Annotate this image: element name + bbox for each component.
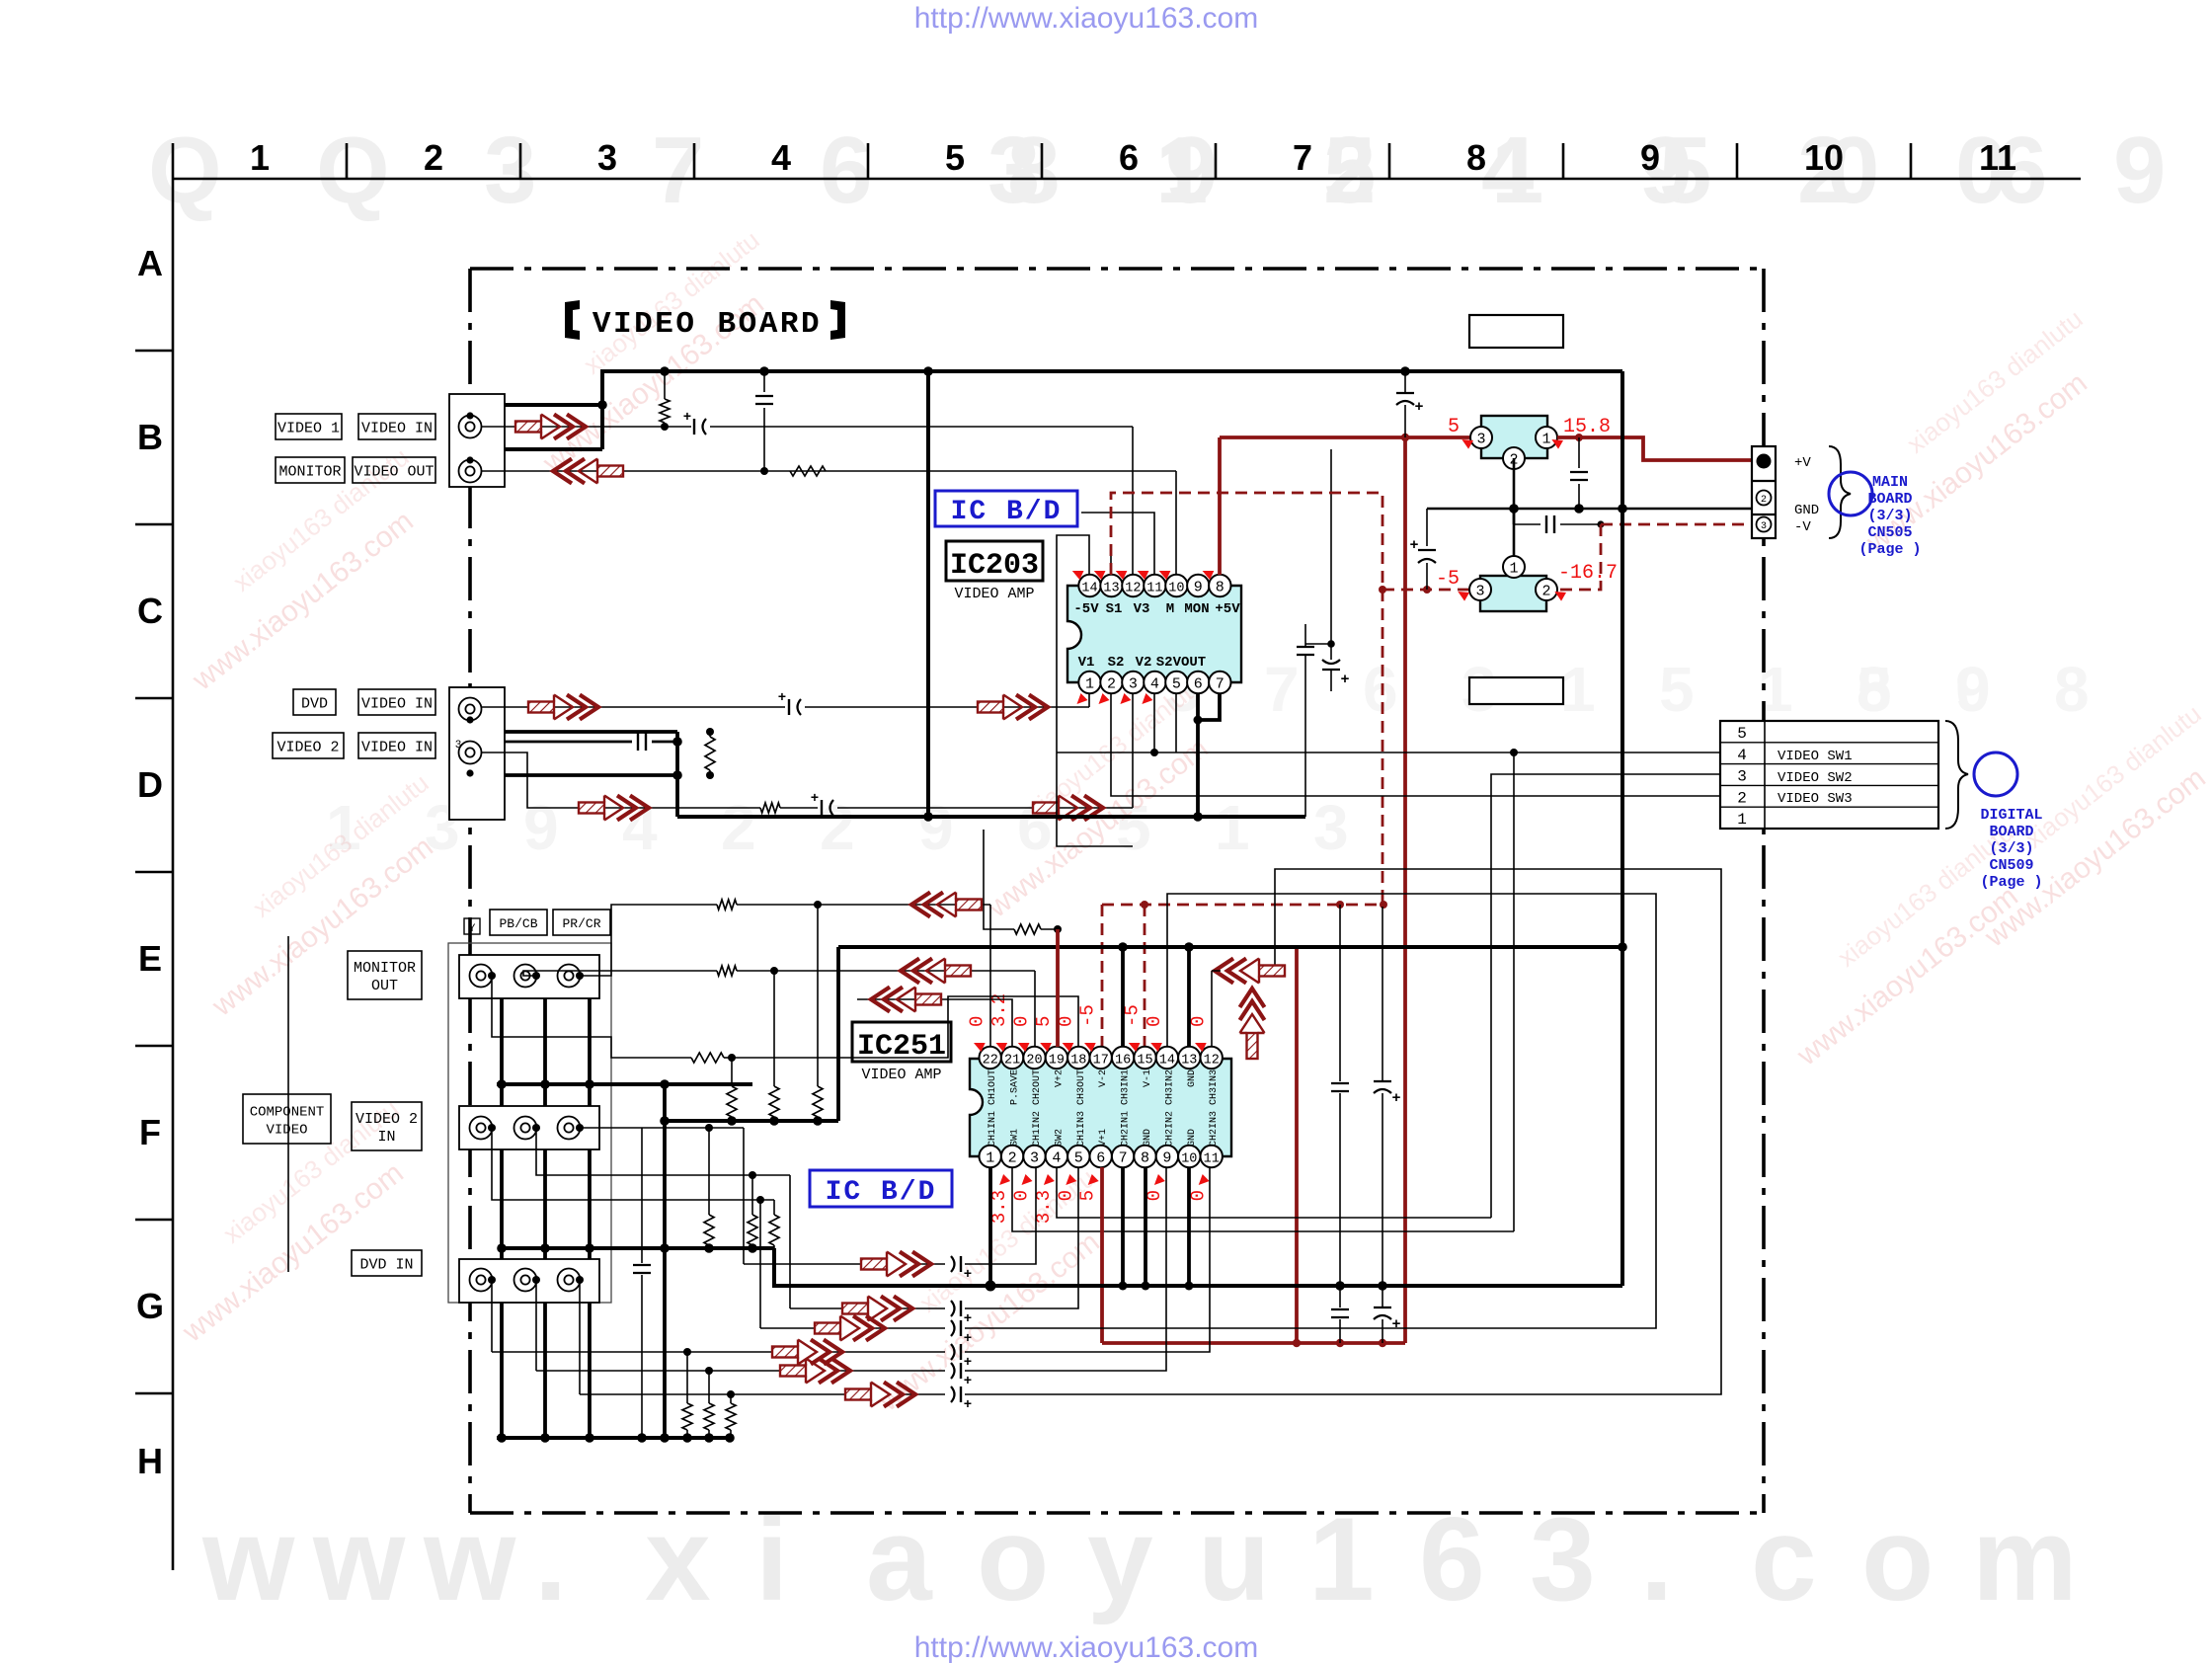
- border ruler top line: [173, 178, 2081, 181]
- IC251 pin18 wire: [732, 996, 1078, 1058]
- svg-text:14: 14: [1081, 582, 1097, 596]
- svg-text:+: +: [964, 1267, 972, 1283]
- wire sw1 vertical: [1513, 752, 1515, 1231]
- svg-text:C: C: [137, 591, 163, 631]
- dashed -5V net top: [1111, 493, 1382, 907]
- svg-text:4: 4: [1481, 118, 1534, 223]
- wire video2 jack gnd: [470, 773, 677, 775]
- svg-text:Q: Q: [148, 118, 222, 223]
- wire IC203 pin14 loop: [1057, 535, 1133, 846]
- svg-text:BOARD: BOARD: [1867, 491, 1912, 508]
- svg-text:w: w: [201, 1493, 295, 1625]
- IC251 pins bottom 1-11: [980, 1146, 1001, 1167]
- svg-text:+: +: [1414, 399, 1423, 416]
- IC251 pins top 22-12: [980, 1047, 1001, 1069]
- svg-text:SW1: SW1: [1010, 1129, 1021, 1147]
- input row 6 wire: [580, 1393, 845, 1395]
- wire video sw3 row2: [1111, 693, 1720, 796]
- svg-text:(3/3): (3/3): [1989, 840, 2033, 857]
- cap input row 3: [951, 1320, 955, 1336]
- cap on +V rail top: [1404, 371, 1406, 393]
- svg-text:CH1IN3: CH1IN3: [1076, 1111, 1087, 1147]
- svg-text:Y: Y: [469, 923, 476, 935]
- svg-text:+: +: [964, 1331, 972, 1347]
- digital board text: [1980, 807, 2042, 891]
- svg-text:Q: Q: [316, 118, 390, 223]
- series cap dvd gnd branch: [491, 741, 632, 744]
- IC251 pin19 supply stub (red): [1056, 929, 1060, 1047]
- svg-text:IC B/D: IC B/D: [826, 1177, 937, 1208]
- svg-text:7: 7: [1293, 137, 1312, 178]
- svg-text:7: 7: [1264, 654, 1300, 725]
- IC B/D label bottom: [810, 1170, 952, 1207]
- arrow input row 3: [815, 1316, 885, 1341]
- svg-text:G: G: [136, 1286, 164, 1326]
- svg-text:VIDEO SW1: VIDEO SW1: [1777, 749, 1853, 764]
- label DVD IN: [352, 1250, 422, 1276]
- component video outer box: [448, 943, 611, 1303]
- svg-text:VIDEO OUT: VIDEO OUT: [354, 464, 434, 481]
- svg-text:GND: GND: [1187, 1129, 1198, 1147]
- ruler row ticks: [135, 350, 173, 353]
- label MONITOR: [276, 457, 345, 483]
- arrow video1 in: [515, 415, 586, 439]
- arrow monitor Pb: [901, 959, 971, 984]
- wire input row 1 return: [965, 1167, 1036, 1264]
- svg-text:CH3IN1: CH3IN1: [1121, 1069, 1132, 1105]
- wire y827 corner cap branch: [1304, 655, 1306, 817]
- svg-text:13: 13: [1103, 582, 1119, 596]
- wire IC203 pin11: [1081, 513, 1154, 575]
- label VIDEO IN: [358, 414, 435, 439]
- wire monitor out Pr: [492, 976, 691, 1058]
- IC203 pins top 14-8: [1078, 575, 1100, 596]
- dashed -5V to reg2: [1382, 589, 1480, 592]
- IC251 designator: [852, 1022, 951, 1062]
- IC B/D label top: [935, 491, 1077, 526]
- svg-text:V-1: V-1: [1143, 1069, 1153, 1087]
- IC251 pin7 gnd stub: [1121, 1167, 1125, 1286]
- svg-text:5: 5: [945, 137, 965, 178]
- REG1 pin3: [1470, 427, 1492, 448]
- svg-text:CN505: CN505: [1867, 524, 1912, 541]
- svg-text:CH2IN2: CH2IN2: [1164, 1111, 1175, 1147]
- svg-text:14: 14: [1159, 1054, 1175, 1069]
- cap reg1 out: [1578, 437, 1580, 468]
- rca group monitor out: [459, 955, 599, 998]
- IC251 pin1 stub: [988, 1167, 992, 1286]
- thick gnd bus y959: [838, 945, 1622, 949]
- resistor monitor Y: [717, 900, 737, 910]
- svg-text:MONITOR: MONITOR: [354, 960, 416, 977]
- IC251 pin13 gnd stub: [1187, 947, 1191, 1047]
- wire IC203 pin8 +5 supply (red): [1218, 437, 1222, 575]
- svg-text:11: 11: [1204, 1152, 1220, 1167]
- svg-text:18: 18: [1070, 1054, 1086, 1069]
- REG2 pin2: [1536, 579, 1557, 600]
- svg-text:2: 2: [1323, 118, 1376, 223]
- svg-text:9: 9: [523, 792, 559, 863]
- wire dvd comp Pb: [535, 1280, 537, 1371]
- svg-text:VIDEO AMP: VIDEO AMP: [954, 586, 1034, 602]
- series cap mid: [1514, 523, 1540, 525]
- svg-text:+5V: +5V: [1215, 601, 1240, 617]
- svg-text:BOARD: BOARD: [1989, 824, 2033, 840]
- arrow video2 in a: [579, 796, 649, 821]
- svg-text:VIDEO SW3: VIDEO SW3: [1777, 791, 1853, 807]
- resistor loads video2 comp: [708, 1128, 710, 1215]
- label VIDEO OUT: [353, 457, 435, 483]
- svg-text:VIDEO SW2: VIDEO SW2: [1777, 770, 1853, 786]
- resistor loads on outputs: [817, 905, 819, 1086]
- empty box below reg2: [1469, 677, 1563, 704]
- wire input row 6 return: [965, 869, 1721, 1394]
- svg-text:6: 6: [1194, 676, 1203, 693]
- svg-text:E: E: [138, 938, 162, 979]
- gnd bus y1264: [502, 1246, 774, 1250]
- svg-text:-16.7: -16.7: [1558, 562, 1618, 585]
- ruler column ticks: [346, 143, 349, 179]
- resistor monitor Pr: [691, 1053, 724, 1063]
- label DVD: [293, 689, 336, 715]
- IC251 pin8 gnd stub: [1144, 1167, 1147, 1286]
- svg-text:1: 1: [250, 137, 270, 178]
- wire input row 3 return: [965, 894, 1656, 1328]
- wire dvd jack gnd: [470, 720, 677, 732]
- IC251 pin10 gnd stub: [1187, 1167, 1191, 1286]
- arrow input row 2: [842, 1297, 912, 1321]
- svg-text:6: 6: [1363, 654, 1398, 725]
- arrow video2 in b: [1033, 796, 1103, 821]
- svg-text:10: 10: [1168, 582, 1184, 596]
- svg-text:CH1IN1: CH1IN1: [987, 1111, 998, 1147]
- wire monitor out Y: [580, 905, 717, 976]
- wire mon output IC203 pin10: [1175, 471, 1177, 575]
- main supply bus (B row): [602, 371, 1622, 449]
- svg-text:+: +: [964, 1374, 972, 1389]
- svg-text:DIGITAL: DIGITAL: [1980, 807, 2042, 824]
- wire video2 comp Y: [580, 1127, 744, 1129]
- resistor video1 load: [664, 371, 666, 399]
- arrow p.save: [871, 988, 941, 1012]
- svg-text:-5: -5: [1436, 568, 1460, 591]
- svg-text:2: 2: [1008, 1150, 1017, 1167]
- svg-text:10: 10: [1181, 1152, 1197, 1167]
- wire v3 input to IC203 pin12: [1132, 427, 1134, 575]
- red rail x1313: [1295, 947, 1299, 1343]
- svg-text:0: 0: [967, 1016, 988, 1027]
- svg-text:IC203: IC203: [950, 549, 1039, 583]
- resistor v+2 feed: [1014, 924, 1041, 934]
- svg-text:OUT: OUT: [371, 978, 398, 994]
- svg-text:CH3OUT: CH3OUT: [1076, 1069, 1087, 1105]
- wire video sw1 row4: [1057, 752, 1720, 753]
- watermark: pink rotated stamps: [176, 225, 2212, 1419]
- gnd rails from monitor out group: [500, 992, 504, 1438]
- svg-text:IC251: IC251: [857, 1030, 946, 1064]
- label VIDEO IN (dvd): [358, 689, 435, 715]
- svg-text:13: 13: [1181, 1054, 1197, 1069]
- svg-text:w: w: [312, 1493, 406, 1625]
- svg-text:3: 3: [1737, 768, 1747, 786]
- svg-text:4: 4: [1150, 676, 1159, 693]
- input row 4 wire: [492, 1351, 772, 1353]
- resistor monitor line: [790, 466, 826, 476]
- svg-text:0: 0: [1188, 1016, 1210, 1027]
- svg-text:-5: -5: [1077, 1004, 1099, 1027]
- +V red feed line: [1220, 436, 1481, 439]
- label VIDEO 1: [276, 414, 342, 439]
- arrow dvd in b: [978, 695, 1048, 720]
- svg-text:6: 6: [1096, 1150, 1105, 1167]
- svg-text:GND: GND: [1794, 503, 1819, 518]
- dashed -V net: [1601, 523, 1759, 526]
- svg-text:V+2: V+2: [1054, 1069, 1065, 1087]
- svg-text:2: 2: [1107, 676, 1116, 693]
- svg-text:5: 5: [1659, 654, 1695, 725]
- svg-text:3: 3: [1761, 521, 1767, 532]
- wire video sw2 row3: [1491, 774, 1720, 1218]
- wire dvd video in: [481, 706, 785, 708]
- svg-text:1: 1: [1085, 676, 1094, 693]
- cap plain near IC203: [1297, 646, 1314, 648]
- svg-text:GND: GND: [1143, 1129, 1153, 1147]
- wire video2 in: [481, 752, 760, 808]
- svg-text:2: 2: [1761, 495, 1767, 506]
- ruler row letters: [136, 243, 164, 1481]
- video board dashed border box: [470, 267, 1764, 271]
- svg-text:V+1: V+1: [1098, 1129, 1109, 1147]
- output bus y827: [677, 815, 1305, 819]
- svg-text:12: 12: [1125, 582, 1141, 596]
- CN509 brace: [1945, 721, 1968, 829]
- svg-text:VIDEO IN: VIDEO IN: [361, 740, 433, 756]
- arrow monitor out: [553, 459, 623, 484]
- wire video1 in signal: [481, 426, 691, 428]
- svg-text:+: +: [1391, 1090, 1400, 1107]
- svg-text:0: 0: [1055, 1190, 1076, 1201]
- svg-text:CH2IN1: CH2IN1: [1121, 1111, 1132, 1147]
- svg-text:S2VOUT: S2VOUT: [1156, 655, 1206, 671]
- svg-text:P.SAVE: P.SAVE: [1010, 1069, 1021, 1105]
- input row 3 wire: [760, 1327, 815, 1329]
- wire IC203 pins6-7 output: [1198, 693, 1220, 817]
- wire gnd to bus y827: [675, 775, 679, 817]
- main board circle: [1829, 472, 1872, 515]
- arrow monitor Y: [911, 893, 982, 917]
- svg-text:B: B: [137, 417, 163, 457]
- svg-text:CH1OUT: CH1OUT: [987, 1069, 998, 1105]
- gnd bus y1135: [665, 1119, 838, 1123]
- svg-text:D: D: [137, 764, 163, 805]
- wire input row 2 return: [965, 1167, 1078, 1308]
- svg-text:VIDEO IN: VIDEO IN: [361, 696, 433, 713]
- title VIDEO BOARD: [565, 300, 580, 340]
- cap input row 4: [951, 1344, 955, 1360]
- svg-text:+: +: [964, 1355, 972, 1371]
- cap input row 5: [951, 1363, 955, 1379]
- wire video1 jack to bus: [470, 405, 602, 416]
- svg-text:http://www.xiaoyu163.com: http://www.xiaoyu163.com: [914, 1631, 1259, 1663]
- svg-text:1: 1: [986, 1150, 994, 1167]
- svg-text:0: 0: [1011, 1016, 1033, 1027]
- svg-text:0: 0: [1144, 1016, 1165, 1027]
- svg-text:8: 8: [1216, 580, 1224, 596]
- svg-text:3: 3: [1129, 676, 1138, 693]
- wire input row 4 return: [965, 1167, 1210, 1352]
- watermark: giant bottom url: [201, 1493, 2078, 1625]
- capacitor video1 coupling: [693, 419, 695, 435]
- svg-text:VIDEO 2: VIDEO 2: [276, 740, 339, 756]
- svg-text:MONITOR: MONITOR: [278, 464, 341, 481]
- svg-text:MON: MON: [1184, 601, 1209, 617]
- svg-text:VIDEO 2: VIDEO 2: [355, 1111, 418, 1128]
- svg-text:3: 3: [455, 740, 462, 752]
- svg-text:2: 2: [820, 792, 855, 863]
- label VIDEO 2 IN: [352, 1102, 422, 1150]
- IC251 pin16 gnd stub: [1121, 947, 1125, 1047]
- svg-text:9: 9: [1165, 118, 1218, 223]
- svg-text:COMPONENT: COMPONENT: [250, 1105, 325, 1121]
- rca group video2 in: [459, 1106, 599, 1149]
- arrow input row 4: [772, 1340, 842, 1365]
- svg-text:9: 9: [918, 792, 954, 863]
- svg-text:8: 8: [1141, 1150, 1149, 1167]
- ruler column numbers: [250, 137, 2016, 178]
- svg-text:2: 2: [424, 137, 443, 178]
- svg-text:0: 0: [1188, 1190, 1210, 1201]
- svg-text:V1: V1: [1078, 655, 1095, 671]
- svg-text:2: 2: [721, 792, 756, 863]
- red wire reg1 out to +V: [1557, 437, 1755, 460]
- svg-text:o: o: [1861, 1493, 1934, 1625]
- REG2 pin1: [1503, 556, 1525, 578]
- label Y: [464, 918, 480, 934]
- cap polar near IC203: [1330, 449, 1332, 660]
- svg-text:V-2: V-2: [1098, 1069, 1109, 1087]
- IC203 video amp body: [1067, 586, 1241, 682]
- svg-text:17: 17: [1093, 1054, 1109, 1069]
- label VIDEO IN (video2): [358, 733, 435, 758]
- wire monitor jack to bus vertical: [470, 449, 602, 460]
- svg-text:H: H: [137, 1441, 163, 1481]
- svg-text:5: 5: [1172, 676, 1181, 693]
- svg-text:1: 1: [1215, 792, 1250, 863]
- gnd bus y1098: [497, 1082, 752, 1086]
- CN505 brace: [1829, 446, 1851, 538]
- svg-text:S1: S1: [1106, 601, 1123, 617]
- svg-text:9: 9: [1194, 580, 1203, 596]
- svg-text:7: 7: [1119, 1150, 1128, 1167]
- wire video2 comp Pb: [536, 1128, 790, 1175]
- svg-text:+V: +V: [1794, 455, 1811, 471]
- cap to dashed: [1426, 509, 1428, 546]
- svg-text:1: 1: [1737, 811, 1747, 829]
- REG1 pin2: [1503, 447, 1525, 469]
- svg-text:+: +: [1409, 537, 1418, 554]
- label COMPONENT VIDEO: [243, 1094, 331, 1144]
- svg-text:11: 11: [1146, 582, 1162, 596]
- svg-text:F: F: [139, 1112, 161, 1152]
- IC251 pin4 sw2 wire: [1057, 1167, 1491, 1218]
- cap dvd coupling: [788, 699, 790, 715]
- junction dots on supply bus: [660, 366, 670, 376]
- arrow input row 6: [845, 1383, 915, 1407]
- thick rail x1643: [1620, 371, 1624, 1286]
- svg-text:9: 9: [1162, 1150, 1171, 1167]
- svg-text:V3: V3: [1134, 601, 1150, 617]
- svg-text:3: 3: [484, 118, 536, 223]
- svg-text:SW2: SW2: [1054, 1129, 1065, 1147]
- svg-text:V2: V2: [1136, 655, 1152, 671]
- svg-text:3: 3: [1030, 1150, 1039, 1167]
- svg-text:2: 2: [1541, 584, 1550, 600]
- arrow input row 1: [861, 1252, 931, 1277]
- svg-text:c: c: [1751, 1493, 1817, 1625]
- svg-text:VIDEO IN: VIDEO IN: [361, 421, 433, 437]
- input row 5 wire: [536, 1370, 780, 1372]
- svg-text:+: +: [964, 1311, 972, 1327]
- IC251 pin22 wire: [989, 905, 991, 1047]
- svg-text:6: 6: [820, 118, 872, 223]
- svg-text:DVD: DVD: [301, 696, 328, 713]
- IC251 pin6 +5 stub: [1100, 1167, 1104, 1343]
- svg-text:S2: S2: [1108, 655, 1125, 671]
- svg-text:-5V: -5V: [1073, 601, 1099, 617]
- wire v+2 feed: [984, 830, 1014, 929]
- svg-text:(Page ): (Page ): [1980, 874, 2042, 891]
- IC203 pins bottom 1-7: [1078, 672, 1100, 693]
- svg-text:9: 9: [1640, 137, 1660, 178]
- watermark: faint gray digit row top: [148, 118, 2166, 223]
- border ruler left line: [172, 143, 175, 1570]
- svg-text:15: 15: [1137, 1054, 1152, 1069]
- main board text: [1858, 474, 1921, 558]
- svg-text:7: 7: [652, 118, 704, 223]
- svg-text:http://www.xiaoyu163.com: http://www.xiaoyu163.com: [914, 2, 1259, 35]
- label VIDEO 2: [273, 733, 344, 758]
- svg-text:5: 5: [1033, 1016, 1055, 1027]
- svg-text:PB/CB: PB/CB: [499, 916, 537, 931]
- arrow on pin12 return: [1215, 959, 1285, 984]
- empty box C row: [1469, 315, 1563, 348]
- svg-text:+: +: [778, 690, 786, 706]
- thick gnd rail x940: [926, 371, 930, 817]
- svg-text:22: 22: [983, 1054, 998, 1069]
- resistor loads dvd comp: [686, 1352, 688, 1403]
- wire IC203 pin6 stub: [1196, 693, 1200, 720]
- svg-text:CH2OUT: CH2OUT: [1032, 1069, 1043, 1105]
- svg-text:2: 2: [1737, 789, 1747, 807]
- svg-text:3: 3: [597, 137, 617, 178]
- svg-text:5: 5: [1074, 1150, 1083, 1167]
- svg-text:VIDEO AMP: VIDEO AMP: [861, 1067, 941, 1083]
- IC203 designator: [946, 541, 1043, 581]
- IC251 video amp body: [970, 1059, 1231, 1156]
- wire IC203 pin13 stub: [1110, 553, 1112, 575]
- svg-text:1: 1: [1509, 561, 1518, 578]
- watermark: faint gray digit row middle: [326, 654, 2090, 863]
- svg-text:7: 7: [1216, 676, 1224, 693]
- wire video2 comp Pr: [492, 1128, 774, 1200]
- rca connector video1/monitor: [449, 394, 505, 487]
- REG1 pin1: [1536, 427, 1557, 448]
- svg-text:m: m: [1972, 1493, 2078, 1625]
- gnd bus to CN505: [1427, 508, 1759, 511]
- svg-text:DVD IN: DVD IN: [359, 1257, 413, 1274]
- IC251 pin2 sw1 wire: [1012, 1167, 1514, 1231]
- svg-text:12: 12: [1204, 1054, 1220, 1069]
